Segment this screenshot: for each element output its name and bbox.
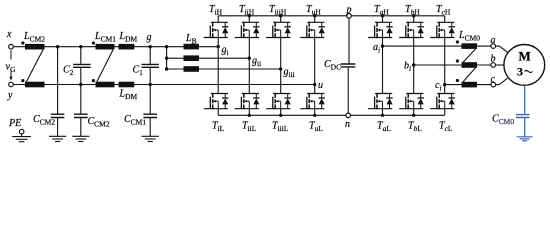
svg-text:LDM: LDM bbox=[119, 31, 138, 44]
inductor LB 1 bbox=[184, 44, 200, 50]
capacitor CCM2a branch wire bbox=[57, 47, 59, 137]
svg-text:M: M bbox=[519, 49, 531, 64]
svg-text:TuL: TuL bbox=[309, 121, 323, 134]
ground CCM2a bbox=[49, 136, 66, 141]
svg-text:bi: bi bbox=[404, 61, 411, 74]
svg-text:b: b bbox=[491, 54, 496, 65]
LCM0 winding b bbox=[462, 62, 478, 68]
svg-text:TaL: TaL bbox=[377, 121, 391, 134]
transistor TcH bbox=[430, 22, 455, 38]
wire: p rail bbox=[218, 15, 445, 17]
inductor LB 3 bbox=[184, 66, 200, 72]
common-mode choke LCM2 winding 1 bbox=[25, 44, 45, 50]
svg-text:C1: C1 bbox=[133, 65, 144, 78]
LCM1 dot 2 bbox=[92, 79, 95, 82]
leg c vertical bbox=[444, 16, 446, 116]
node g bbox=[149, 45, 152, 48]
svg-text:CCM1: CCM1 bbox=[124, 114, 146, 127]
node gii bbox=[248, 57, 251, 60]
svg-text:g: g bbox=[147, 32, 152, 43]
wire LB feeder vertical bbox=[166, 47, 168, 69]
common-mode choke LCM1 winding 1 bbox=[96, 44, 115, 50]
inductor LB 2 bbox=[184, 55, 200, 61]
junction C1 on y-line bbox=[149, 83, 152, 86]
transistor TbH bbox=[399, 22, 424, 38]
node p bbox=[347, 14, 352, 19]
terminal PE bbox=[19, 129, 24, 134]
svg-text:LDM: LDM bbox=[119, 89, 138, 102]
transistor TiiH bbox=[235, 22, 260, 38]
transistor TaL bbox=[368, 93, 393, 109]
svg-text:y: y bbox=[7, 90, 13, 101]
capacitor CCM0 (blue) bbox=[516, 115, 530, 118]
junction C2 on x-line bbox=[79, 45, 82, 48]
transistor TiL bbox=[204, 93, 229, 109]
leg iii vertical bbox=[280, 16, 282, 116]
capacitor CDC branch bbox=[347, 18, 350, 113]
node u bbox=[313, 83, 316, 86]
svg-text:c: c bbox=[491, 74, 496, 85]
svg-text:n: n bbox=[345, 119, 350, 130]
wire phase a bbox=[383, 45, 491, 47]
capacitor C1 plates bbox=[142, 64, 159, 67]
svg-text:CCM0: CCM0 bbox=[492, 114, 514, 127]
wire: n rail bbox=[218, 114, 445, 116]
junction feeder bottom bbox=[165, 67, 168, 70]
node gi bbox=[217, 45, 220, 48]
svg-text:u: u bbox=[318, 80, 323, 91]
common-mode choke LCM1 winding 2 bbox=[96, 82, 115, 88]
transistor TuH bbox=[300, 22, 325, 38]
rail junction dots bottom bbox=[248, 114, 251, 117]
svg-text:TcL: TcL bbox=[439, 121, 453, 134]
node bi bbox=[412, 63, 415, 66]
wire phase b bbox=[414, 64, 491, 66]
LCM1 core diagonal bbox=[97, 50, 113, 82]
common-mode choke LCM0 winding a bbox=[462, 43, 478, 49]
junction feeder top bbox=[165, 45, 168, 48]
transistor TcL bbox=[430, 93, 455, 109]
transistor TaH bbox=[368, 22, 393, 38]
leg b vertical bbox=[413, 16, 415, 116]
junction feeder mid bbox=[165, 57, 168, 60]
svg-text:TiH: TiH bbox=[209, 4, 223, 17]
PE ground bbox=[21, 134, 23, 137]
leg ii vertical bbox=[248, 16, 250, 116]
node c bbox=[491, 82, 496, 87]
wire b to motor bbox=[496, 64, 504, 66]
svg-text:TiiiH: TiiiH bbox=[269, 4, 287, 17]
LCM0 winding c bbox=[462, 82, 478, 88]
junction CCM2a on x-line bbox=[56, 45, 59, 48]
svg-text:CCM2: CCM2 bbox=[33, 114, 55, 127]
svg-text:TiL: TiL bbox=[212, 121, 225, 134]
motor M bbox=[504, 45, 545, 86]
LCM2 dot 1 bbox=[21, 41, 24, 44]
capacitor CDC plates bbox=[341, 64, 356, 67]
capacitor CCM2a plates bbox=[51, 114, 65, 117]
leg a vertical bbox=[382, 16, 384, 116]
svg-text:ai: ai bbox=[373, 42, 380, 55]
svg-text:ci: ci bbox=[435, 80, 442, 93]
wire: y input line (bottom) to node u bbox=[11, 84, 315, 86]
junction C2/CCM2b on y-line bbox=[79, 83, 82, 86]
svg-text:gi: gi bbox=[222, 45, 229, 58]
svg-text:3: 3 bbox=[517, 65, 523, 79]
node ci bbox=[443, 83, 446, 86]
source vG arrow bbox=[10, 50, 12, 59]
capacitor CCM1 plates bbox=[143, 114, 157, 117]
node giii bbox=[279, 67, 282, 70]
capacitor CCM2b plates bbox=[74, 114, 88, 117]
LCM2 core diagonal bbox=[27, 50, 44, 82]
terminal x bbox=[9, 44, 14, 49]
wire LB line 2 bbox=[167, 57, 250, 59]
ground CCM2b bbox=[72, 136, 89, 141]
transistor TuL bbox=[300, 93, 325, 109]
capacitor C2 branch wire bbox=[80, 47, 82, 137]
terminal y bbox=[9, 82, 14, 87]
inductor LDM top bbox=[119, 44, 135, 50]
svg-text:a: a bbox=[491, 35, 496, 46]
capacitor C1 branch wire bbox=[149, 47, 151, 137]
svg-text:TiiL: TiiL bbox=[242, 121, 257, 134]
blue motor ground wire bbox=[524, 85, 526, 114]
wire: x input line (top) bbox=[11, 46, 218, 48]
svg-text:CDC: CDC bbox=[324, 59, 341, 72]
LCM0 diagonal 2 bbox=[463, 68, 476, 82]
svg-text:p: p bbox=[346, 5, 352, 16]
leg u vertical bbox=[314, 16, 316, 116]
svg-text:TiiiL: TiiiL bbox=[272, 121, 289, 134]
svg-text:gii: gii bbox=[252, 56, 261, 69]
transistor TiiiL bbox=[266, 93, 291, 109]
capacitor C2 plates bbox=[73, 64, 90, 67]
transistor TiH bbox=[204, 22, 229, 38]
node b bbox=[491, 63, 496, 68]
svg-text:TbL: TbL bbox=[408, 121, 422, 134]
svg-text:LCM1: LCM1 bbox=[94, 31, 116, 44]
svg-text:LCM0: LCM0 bbox=[458, 30, 480, 43]
leg i vertical bbox=[217, 16, 219, 116]
svg-text:CCM2: CCM2 bbox=[88, 116, 110, 129]
transistor TiiL bbox=[235, 93, 260, 109]
inductor LDM bottom bbox=[119, 82, 135, 88]
transistor TbL bbox=[399, 93, 424, 109]
LCM0 diagonal 1 bbox=[463, 49, 476, 63]
svg-text:TcH: TcH bbox=[436, 4, 451, 17]
svg-text:C2: C2 bbox=[63, 65, 74, 78]
node a bbox=[491, 44, 496, 49]
svg-text:x: x bbox=[6, 29, 12, 40]
svg-text:LB: LB bbox=[185, 33, 197, 46]
LCM1 dot 1 bbox=[92, 41, 95, 44]
transistor TiiiH bbox=[266, 22, 291, 38]
ground CCM0 (blue) bbox=[517, 137, 533, 141]
wire a to motor bbox=[496, 46, 508, 52]
LCM0 dots bbox=[456, 40, 459, 43]
svg-text:LCM2: LCM2 bbox=[23, 31, 45, 44]
wire phase c bbox=[445, 84, 491, 86]
svg-text:PE: PE bbox=[8, 118, 21, 129]
node ai bbox=[381, 44, 384, 47]
svg-text:TiiH: TiiH bbox=[239, 4, 255, 17]
svg-text:vG: vG bbox=[6, 62, 16, 75]
common-mode choke LCM2 winding 2 bbox=[25, 82, 45, 88]
ground CCM1 bbox=[142, 136, 159, 141]
wire c to motor bbox=[496, 78, 508, 85]
svg-text:giii: giii bbox=[284, 67, 295, 80]
wire LB line 3 bbox=[167, 68, 281, 70]
node n bbox=[346, 113, 351, 118]
LCM2 dot 2 bbox=[21, 79, 24, 82]
rail junction dots top bbox=[248, 14, 251, 17]
